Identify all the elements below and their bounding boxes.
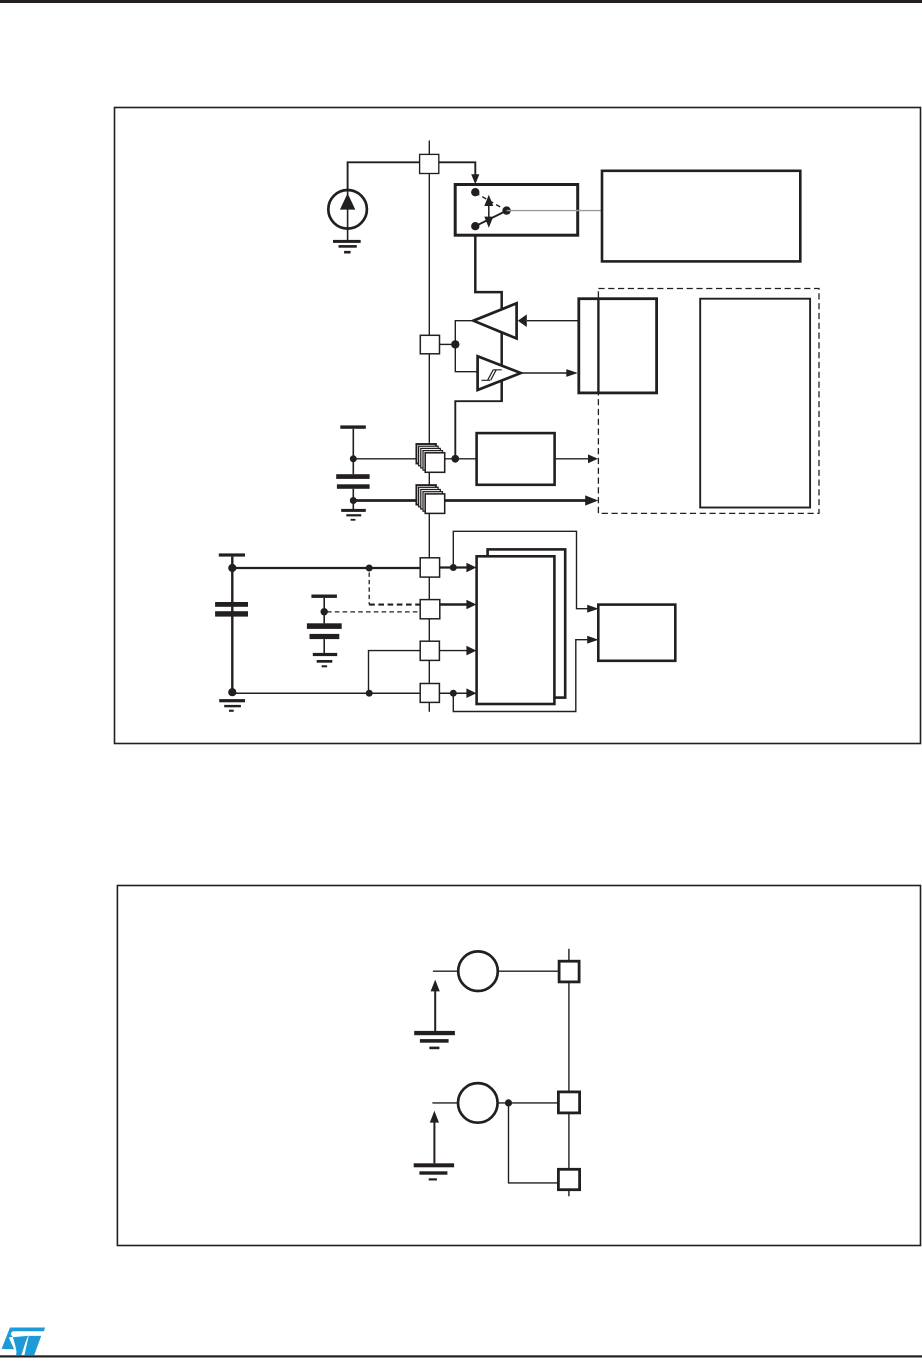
node N2 bbox=[451, 455, 459, 463]
arrow into core block (L2) bbox=[466, 600, 476, 610]
core front block B6 bbox=[477, 556, 555, 704]
arrow into core block (L3) bbox=[466, 646, 476, 656]
wire from switch S1 down to node N2 bbox=[475, 235, 501, 401]
wire pin L2 to core block bbox=[440, 603, 467, 606]
wire pin rail bbox=[568, 949, 570, 1196]
wire pin L1 wrap to output block (top) bbox=[453, 531, 588, 608]
wire from pin P1 to current source I1 bbox=[348, 162, 420, 190]
node switch top contact bbox=[471, 188, 479, 196]
wire switch alternate position (dashed) bbox=[475, 193, 506, 211]
ground under capacitor C1 bbox=[341, 509, 366, 512]
wire pin P2 to node N3 bbox=[440, 343, 454, 345]
source V1 bbox=[458, 951, 498, 991]
node N8 bbox=[366, 565, 373, 572]
wire pin L3 loop to ground rail bbox=[369, 651, 421, 694]
block B3 bbox=[477, 433, 555, 485]
arrow into core block (L4) bbox=[466, 688, 476, 698]
node V2 output bbox=[505, 1099, 512, 1106]
current source I1 bbox=[328, 190, 367, 229]
pin F1 bbox=[559, 961, 579, 982]
wire source V1 to pin F1 bbox=[498, 970, 559, 972]
node N12 bbox=[450, 690, 457, 697]
wire switch arm bbox=[475, 211, 506, 227]
wire supply bar to capacitor C1 bbox=[352, 429, 354, 474]
wire node to pin F3 bbox=[509, 1103, 559, 1183]
capacitor C3 bbox=[307, 623, 342, 629]
capacitor C2 bbox=[215, 602, 248, 607]
node N9 bbox=[366, 690, 373, 697]
wire buffer input from register block bbox=[527, 320, 579, 322]
switch actuation double arrow bbox=[488, 202, 490, 221]
wire source V1 left lead bbox=[433, 970, 459, 972]
capacitor C3 supply bar bbox=[311, 595, 337, 598]
switch S1 bbox=[455, 185, 578, 236]
arrow into logic block (bottom) bbox=[585, 495, 598, 505]
pin L1 bbox=[420, 558, 439, 577]
wire pin L1 to core block bbox=[440, 566, 467, 568]
ground under capacitor C2 bbox=[219, 699, 245, 702]
wire pin L4 wrap to output block (bottom) bbox=[453, 640, 588, 712]
capacitor C1 supply bar bbox=[340, 425, 366, 428]
supply pads stack PS1 bbox=[416, 444, 444, 472]
wire Schmitt output to register block bbox=[521, 372, 567, 374]
wire capacitor C1 to ground bbox=[352, 489, 354, 509]
memory block B4 bbox=[700, 299, 810, 508]
ST logo bbox=[2, 1328, 45, 1356]
pin F2 bbox=[558, 1092, 579, 1113]
ground under capacitor C3 bbox=[313, 653, 337, 656]
capacitor C1 bbox=[336, 474, 369, 479]
dashed logic block boundary bbox=[598, 289, 819, 514]
arrow into register block bbox=[566, 369, 578, 377]
pin L2 bbox=[420, 600, 440, 619]
core back block B5 bbox=[488, 549, 566, 697]
pin F3 bbox=[558, 1169, 579, 1189]
wire from pin P1 to switch S1 bbox=[439, 162, 476, 176]
wire thick ground line to logic block bbox=[353, 499, 587, 502]
wire source V2 to pin F2 bbox=[497, 1102, 558, 1104]
wire capacitor C2 branch bbox=[231, 557, 233, 692]
pin P1 bbox=[420, 154, 439, 173]
wire switch common to control block (gray) bbox=[507, 210, 602, 212]
output block B7 bbox=[598, 605, 675, 661]
arrow into logic block (top) bbox=[588, 454, 598, 463]
arrow into switch S1 bbox=[471, 174, 479, 184]
ground pads stack PS2 bbox=[416, 485, 444, 513]
arrow reference V1 bbox=[434, 988, 436, 1031]
wire main vertical rail bbox=[428, 141, 430, 712]
buffer U1 bbox=[473, 303, 516, 338]
node N3 bbox=[451, 340, 459, 348]
node N4 bbox=[350, 455, 357, 462]
node N7 bbox=[228, 688, 236, 696]
wire supply line to block B3 bbox=[353, 458, 476, 460]
node N11 bbox=[450, 564, 457, 571]
node N5 bbox=[350, 497, 357, 504]
register block B2 bbox=[579, 299, 657, 393]
pin L3 bbox=[420, 641, 439, 660]
node N10 bbox=[321, 608, 328, 615]
ground under current source bbox=[333, 240, 361, 243]
dashed wire capacitor C3 to pin L2 bbox=[327, 611, 420, 613]
ground under V1 bbox=[414, 1031, 455, 1035]
ground under V2 bbox=[414, 1163, 454, 1167]
wire capacitor C3 to ground bbox=[323, 639, 325, 653]
wire capacitor C3 branch bbox=[323, 598, 325, 623]
source V2 bbox=[458, 1083, 498, 1123]
wire block B3 to logic block bbox=[555, 458, 588, 460]
node switch bottom contact bbox=[471, 222, 479, 230]
wire supply rail to pin L1 bbox=[232, 567, 420, 569]
node N6 bbox=[228, 564, 236, 572]
Schmitt trigger U2 bbox=[478, 356, 521, 390]
arrow reference V2 bbox=[433, 1119, 435, 1163]
node switch common bbox=[502, 206, 510, 214]
wire ground rail to pin L4 bbox=[232, 692, 420, 694]
wire buffer output to node N3 and Schmitt input bbox=[455, 321, 477, 372]
arrow into output block (bottom) bbox=[587, 636, 598, 644]
dashed wire supply option (vertical) bbox=[368, 573, 370, 605]
control block B1 bbox=[602, 171, 800, 262]
pin L4 bbox=[420, 684, 439, 703]
arrow into buffer U1 bbox=[518, 314, 527, 327]
wire jog to node N2 bbox=[455, 401, 503, 459]
arrow into output block (top) bbox=[587, 605, 598, 613]
pin P2 bbox=[420, 335, 439, 354]
arrow into core block (L1) bbox=[466, 563, 476, 573]
wire source V2 left lead bbox=[432, 1102, 459, 1104]
capacitor C2 supply bar bbox=[219, 553, 245, 556]
wire pin L4 to core block bbox=[439, 692, 467, 694]
dashed wire supply option (horizontal thick) bbox=[369, 604, 420, 606]
wire pin L3 to core block bbox=[439, 650, 467, 652]
